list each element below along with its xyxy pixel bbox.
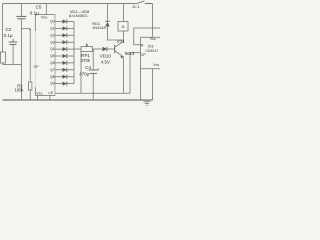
svg-text:8×1N4001: 8×1N4001	[69, 13, 88, 18]
svg-text:VDD: VDD	[41, 15, 48, 19]
svg-text:100k: 100k	[15, 88, 25, 93]
svg-text:9013: 9013	[125, 51, 135, 56]
svg-text:0.1μ: 0.1μ	[30, 11, 39, 16]
svg-text:Q2: Q2	[50, 33, 55, 37]
svg-text:Q7: Q7	[50, 68, 55, 72]
svg-text:Q0: Q0	[50, 20, 55, 24]
svg-text:Q3: Q3	[50, 40, 55, 44]
svg-text:470μ: 470μ	[79, 72, 89, 77]
svg-text:1N4148: 1N4148	[92, 25, 106, 30]
svg-text:VDD: VDD	[150, 37, 156, 41]
svg-text:4.5V: 4.5V	[101, 59, 110, 64]
svg-text:Q1: Q1	[50, 27, 55, 31]
svg-text:VSS: VSS	[36, 91, 42, 95]
svg-text:VSS: VSS	[153, 63, 159, 67]
svg-text:VD10: VD10	[100, 53, 112, 58]
svg-text:VT1: VT1	[117, 39, 126, 44]
svg-text:470k: 470k	[81, 58, 91, 63]
svg-text:J1-1: J1-1	[132, 4, 141, 9]
svg-text:C5: C5	[36, 5, 42, 10]
svg-text:LE: LE	[49, 91, 54, 95]
svg-text:Q6: Q6	[50, 61, 55, 65]
svg-text:Q5: Q5	[50, 54, 55, 58]
svg-text:CD4017: CD4017	[145, 49, 158, 53]
svg-text:C2: C2	[6, 27, 12, 32]
svg-text:Q8: Q8	[50, 75, 55, 79]
svg-text:Q4: Q4	[50, 47, 55, 51]
svg-text:C4: C4	[85, 65, 91, 70]
svg-text:CP: CP	[141, 53, 147, 57]
svg-text:Q9: Q9	[50, 82, 55, 86]
svg-text:0.1μ: 0.1μ	[4, 33, 13, 38]
svg-text:+: +	[97, 67, 100, 72]
svg-text:CP: CP	[34, 65, 40, 69]
